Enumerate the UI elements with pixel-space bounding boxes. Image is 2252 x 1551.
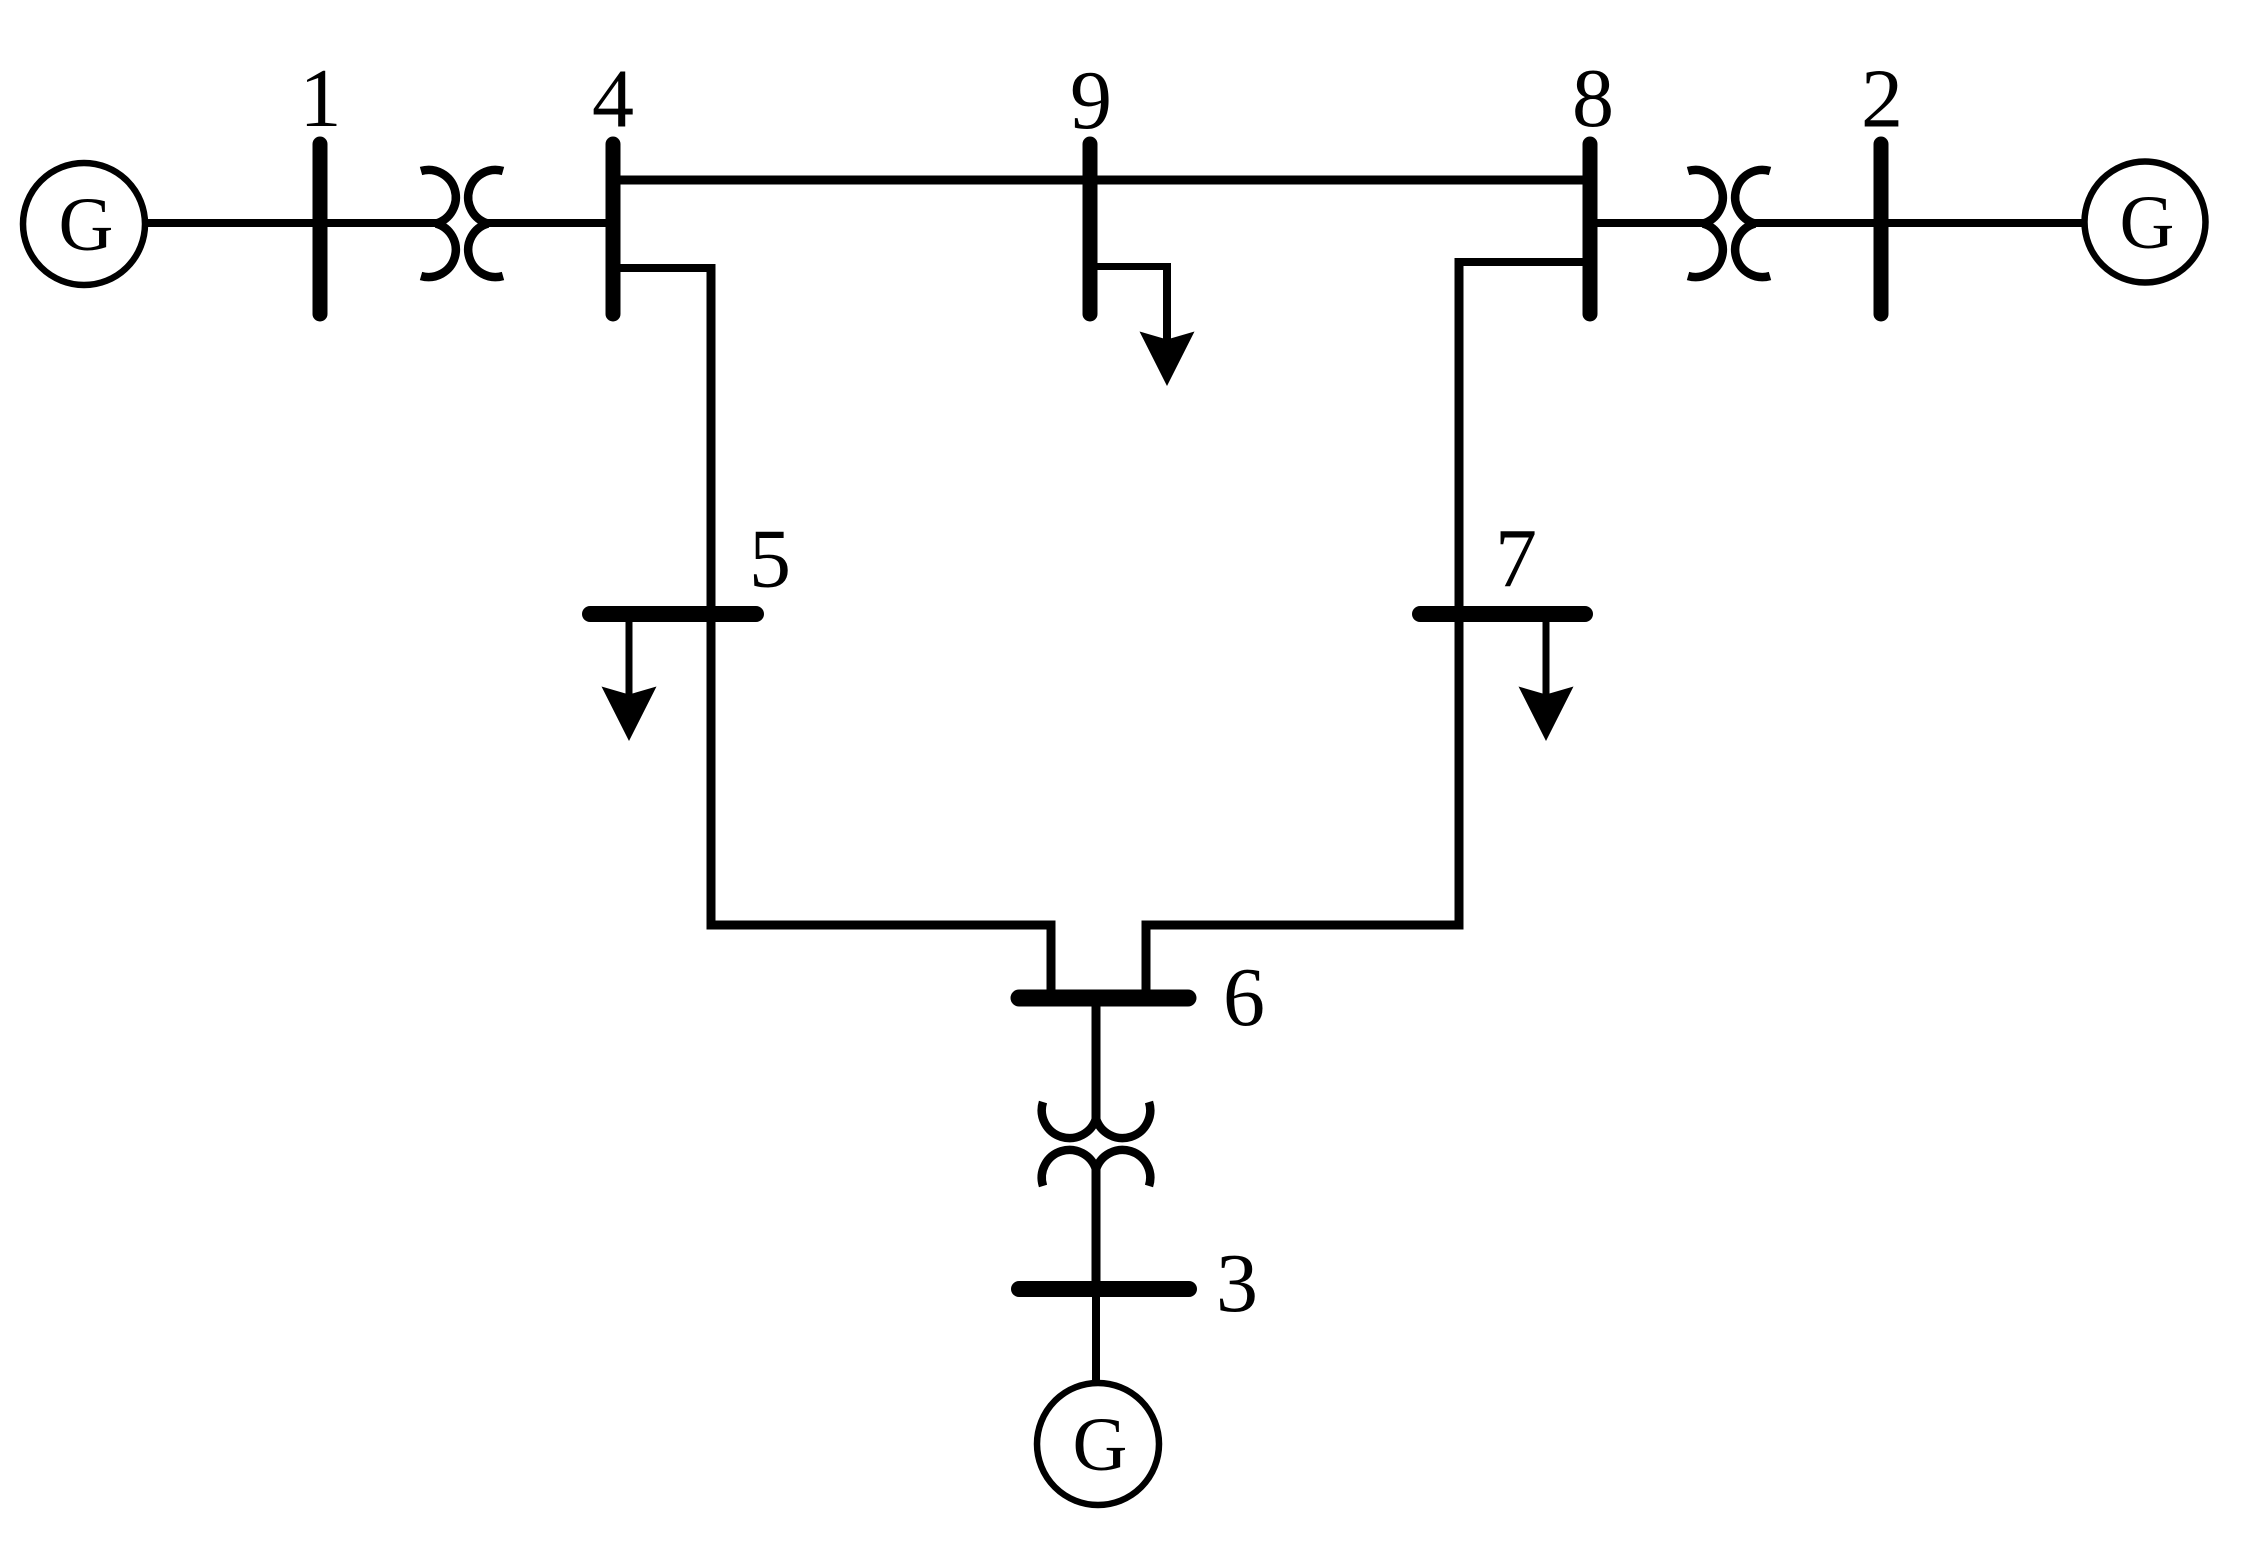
svg-text:9: 9 [1070,54,1112,147]
svg-text:G: G [1073,1403,1128,1487]
svg-text:4: 4 [592,53,634,146]
svg-text:G: G [2120,181,2175,265]
svg-text:3: 3 [1216,1237,1258,1330]
svg-text:6: 6 [1223,951,1265,1044]
svg-text:G: G [59,183,114,267]
svg-text:7: 7 [1495,512,1537,605]
svg-text:2: 2 [1861,53,1903,146]
svg-text:8: 8 [1572,52,1614,145]
svg-text:1: 1 [300,52,342,145]
svg-text:5: 5 [749,513,791,606]
